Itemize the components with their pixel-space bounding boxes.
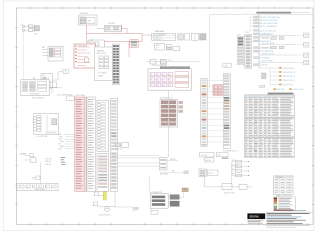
ground run bottom — [204, 176, 252, 194]
company logo black box — [247, 213, 265, 223]
wire gray horizontal run y62 — [146, 61, 200, 63]
micro relay dark box red outline — [130, 40, 138, 47]
svg-text:LEGEND: LEGEND — [276, 177, 283, 179]
table title bar — [268, 93, 294, 95]
pink table row marks — [76, 99, 83, 189]
symbol legend table — [274, 176, 293, 195]
svg-text:L5: L5 — [45, 187, 47, 189]
panel outline — [209, 15, 313, 90]
svg-text:G202 ENG BLK: G202 ENG BLK — [99, 215, 111, 217]
svg-text:GRN 18: GRN 18 — [45, 161, 51, 163]
svg-text:WIRE COLOR CODE: WIRE COLOR CODE — [276, 195, 291, 197]
table frame — [244, 95, 294, 158]
svg-text:C220: C220 — [224, 65, 228, 67]
pin rows with cyan labels — [250, 16, 281, 67]
connector C110 fan-out left — [32, 98, 58, 138]
svg-text:G401 I/P GND: G401 I/P GND — [224, 192, 235, 194]
wire red drop center — [128, 42, 130, 58]
svg-text:C110 GRY 16W: C110 GRY 16W — [36, 136, 48, 138]
wire table row grid lines — [244, 97, 294, 156]
svg-text:SP10: SP10 — [156, 45, 160, 47]
blower relay box mid-bottom — [159, 158, 189, 176]
battery symbol circles top-left — [21, 24, 25, 32]
fuse strip dark twin column — [112, 44, 119, 85]
title block text — [266, 210, 313, 223]
svg-text:L6: L6 — [52, 187, 54, 189]
stub wires column to fuse block — [207, 80, 223, 142]
svg-text:MOTOR CKT: MOTOR CKT — [97, 53, 107, 55]
svg-text:J/B: J/B — [33, 78, 35, 80]
svg-text:C112: C112 — [168, 60, 172, 62]
svg-text:R4 HI: R4 HI — [232, 174, 237, 176]
frame tick marks right — [312, 28, 314, 205]
lamp load strip bottom-left — [17, 176, 58, 191]
svg-text:B+ RED 2.0: B+ RED 2.0 — [153, 37, 162, 39]
fusible link yellow — [103, 192, 106, 200]
svg-text:OPTION CONN LIST: OPTION CONN LIST — [152, 65, 167, 67]
section divider rows in table — [245, 117, 295, 138]
svg-text:R2 MED: R2 MED — [232, 164, 239, 166]
svg-text:PB: PB — [162, 85, 164, 87]
junction block left cluster — [21, 78, 62, 96]
svg-text:S304 SPLICE YL: S304 SPLICE YL — [282, 80, 294, 82]
connector table C201 top-center-right — [152, 30, 176, 41]
svg-text:02: 02 — [250, 20, 252, 22]
resistor rows right-bottom — [231, 160, 249, 187]
purple option table — [148, 65, 191, 90]
svg-text:P8: P8 — [168, 79, 170, 81]
wire color code table — [273, 195, 295, 210]
relay cells pink block — [213, 85, 223, 95]
orange accents in table — [254, 102, 257, 151]
connector column table C2 — [97, 100, 109, 151]
svg-text:C2 BLK ILL: C2 BLK ILL — [260, 65, 268, 67]
motor assembly box bottom-center — [150, 192, 168, 208]
starter module box D — [95, 47, 113, 81]
connector J1 header cluster top — [79, 13, 98, 25]
svg-text:IGN1: IGN1 — [60, 141, 64, 143]
svg-text:P1: P1 — [150, 74, 152, 76]
note boxes below table — [199, 152, 228, 159]
svg-text:C410 4W: C410 4W — [200, 155, 207, 157]
svg-text:B2 LT BLU SENS: B2 LT BLU SENS — [262, 43, 274, 45]
wire runs into motor cluster — [149, 176, 183, 203]
svg-text:L4: L4 — [39, 187, 41, 189]
svg-text:SW2: SW2 — [32, 177, 36, 179]
svg-text:L1: L1 — [20, 187, 22, 189]
svg-text:ORN 18: ORN 18 — [45, 164, 51, 166]
svg-text:B0 LTGRN HORN: B0 LTGRN HORN — [260, 51, 274, 53]
label box C220 — [223, 64, 232, 68]
svg-text:BLOWER MTR: BLOWER MTR — [151, 192, 163, 194]
small boxes below pink tables — [93, 191, 115, 207]
relay column table right of C2 — [110, 98, 117, 191]
wire red bus loop — [87, 34, 143, 42]
copyright line below frame — [266, 224, 310, 227]
svg-text:C4 ORN: C4 ORN — [262, 48, 269, 50]
svg-text:P5: P5 — [150, 79, 152, 81]
svg-text:S311 BLK GND: S311 BLK GND — [292, 89, 304, 91]
frame tick marks bottom — [30, 223, 307, 225]
svg-text:L2: L2 — [26, 187, 28, 189]
connector strip column G1 — [237, 34, 244, 64]
svg-text:ST2: ST2 — [59, 139, 62, 141]
svg-text:S303 SPLICE OR: S303 SPLICE OR — [282, 76, 296, 78]
terminal blocks right of C201 — [178, 33, 206, 40]
body control box C left — [41, 74, 52, 89]
wire labels stack to pink table — [58, 134, 65, 150]
svg-text:P6: P6 — [156, 79, 158, 81]
svg-text:S204 J/C: S204 J/C — [116, 149, 123, 151]
inline connector small mid-left — [52, 70, 68, 80]
dimmer cluster small left — [20, 154, 65, 184]
svg-text:S301 SPLICE PK: S301 SPLICE PK — [282, 68, 295, 70]
svg-text:P3: P3 — [162, 74, 164, 76]
pink ECU pin table — [75, 95, 86, 191]
svg-text:INST CLUSTER: INST CLUSTER — [32, 98, 44, 100]
wire table rows text — [245, 97, 294, 156]
wire red main feed vertical — [86, 25, 88, 34]
revision table small mid-right — [205, 158, 214, 162]
ground stud G101 — [52, 88, 74, 100]
svg-text:01: 01 — [250, 17, 252, 19]
svg-text:C201 PWR FEED: C201 PWR FEED — [153, 34, 167, 36]
svg-text:DELPHI: DELPHI — [250, 215, 259, 218]
svg-text:GND BLK 2.0: GND BLK 2.0 — [153, 39, 163, 41]
svg-text:R1 LO: R1 LO — [232, 160, 237, 162]
alternator circle symbol — [99, 206, 111, 216]
svg-text:C2 ORN: C2 ORN — [262, 38, 269, 40]
svg-text:P4: P4 — [168, 74, 170, 76]
header row — [244, 95, 294, 97]
svg-text:B+: B+ — [21, 24, 23, 26]
svg-text:C240: C240 — [245, 32, 249, 34]
svg-text:BLW HI: BLW HI — [170, 159, 176, 161]
splice rows lower panel — [259, 67, 304, 92]
svg-text:IGN SW: IGN SW — [109, 23, 115, 25]
resistor block pair bottom-center — [170, 195, 179, 207]
svg-text:04: 04 — [250, 26, 252, 28]
svg-text:05: 05 — [250, 30, 252, 32]
svg-text:C305 2W: C305 2W — [132, 209, 139, 211]
svg-text:PWR DIST: PWR DIST — [80, 13, 88, 15]
wires mid horizontal — [112, 155, 160, 166]
frame tick marks left — [15, 28, 17, 205]
fusible link box left A — [42, 46, 63, 61]
fuse F1 boxes top-left — [24, 25, 40, 80]
fuse block narrow table right — [222, 74, 237, 153]
relay K1 white box in bus loop — [89, 40, 105, 48]
svg-text:SW C2: SW C2 — [208, 173, 213, 175]
main harness bus vertical — [258, 15, 260, 68]
wire red drop to fuse box — [86, 42, 88, 45]
splice label mid — [116, 142, 129, 150]
connector row top-center — [97, 23, 127, 34]
pin column left of fuse block — [201, 78, 207, 146]
panel header bar — [256, 12, 291, 14]
svg-text:I/P FUSE BLOCK C2: I/P FUSE BLOCK C2 — [222, 151, 237, 153]
svg-text:P2: P2 — [156, 74, 158, 76]
component rows mid panel — [259, 33, 308, 65]
inline connectors on y62 run — [150, 59, 172, 64]
svg-text:R3 M2: R3 M2 — [232, 169, 237, 171]
connector pair tan bottom-center — [182, 188, 188, 192]
svg-text:S305 SPL GN: S305 SPL GN — [282, 84, 293, 86]
connector column table C3 lower — [97, 154, 109, 192]
svg-text:P7: P7 — [162, 79, 164, 81]
white pin table beside pink — [87, 97, 95, 191]
svg-text:B5: B5 — [59, 144, 61, 146]
svg-text:P9: P9 — [150, 85, 152, 87]
switch connector left of resistors — [199, 169, 218, 176]
svg-text:SOL: SOL — [42, 75, 45, 77]
ECM red-outlined box B — [74, 44, 95, 68]
svg-text:L3: L3 — [33, 187, 35, 189]
svg-text:PCM C1 BLU: PCM C1 BLU — [75, 95, 85, 97]
svg-text:M2: M2 — [172, 170, 174, 172]
frame tick marks top — [30, 7, 307, 9]
connector strip column G2 — [245, 32, 252, 68]
column lines — [248, 95, 272, 158]
bulkhead grid table tan — [160, 90, 183, 157]
svg-text:C230: C230 — [237, 34, 241, 36]
ground box small below motor — [150, 208, 158, 214]
svg-text:03: 03 — [250, 23, 252, 25]
gauge text small bottom-left-center — [115, 207, 139, 211]
svg-text:RES 4SPD: RES 4SPD — [160, 174, 169, 176]
relay modules right column — [304, 33, 309, 65]
wire red feed to connector table — [142, 34, 152, 36]
svg-text:C411: C411 — [217, 155, 221, 157]
svg-text:S302 SPLICE RD: S302 SPLICE RD — [282, 72, 295, 74]
splice box small below C201 — [155, 43, 180, 50]
svg-text:PNL LPS: PNL LPS — [45, 159, 52, 161]
